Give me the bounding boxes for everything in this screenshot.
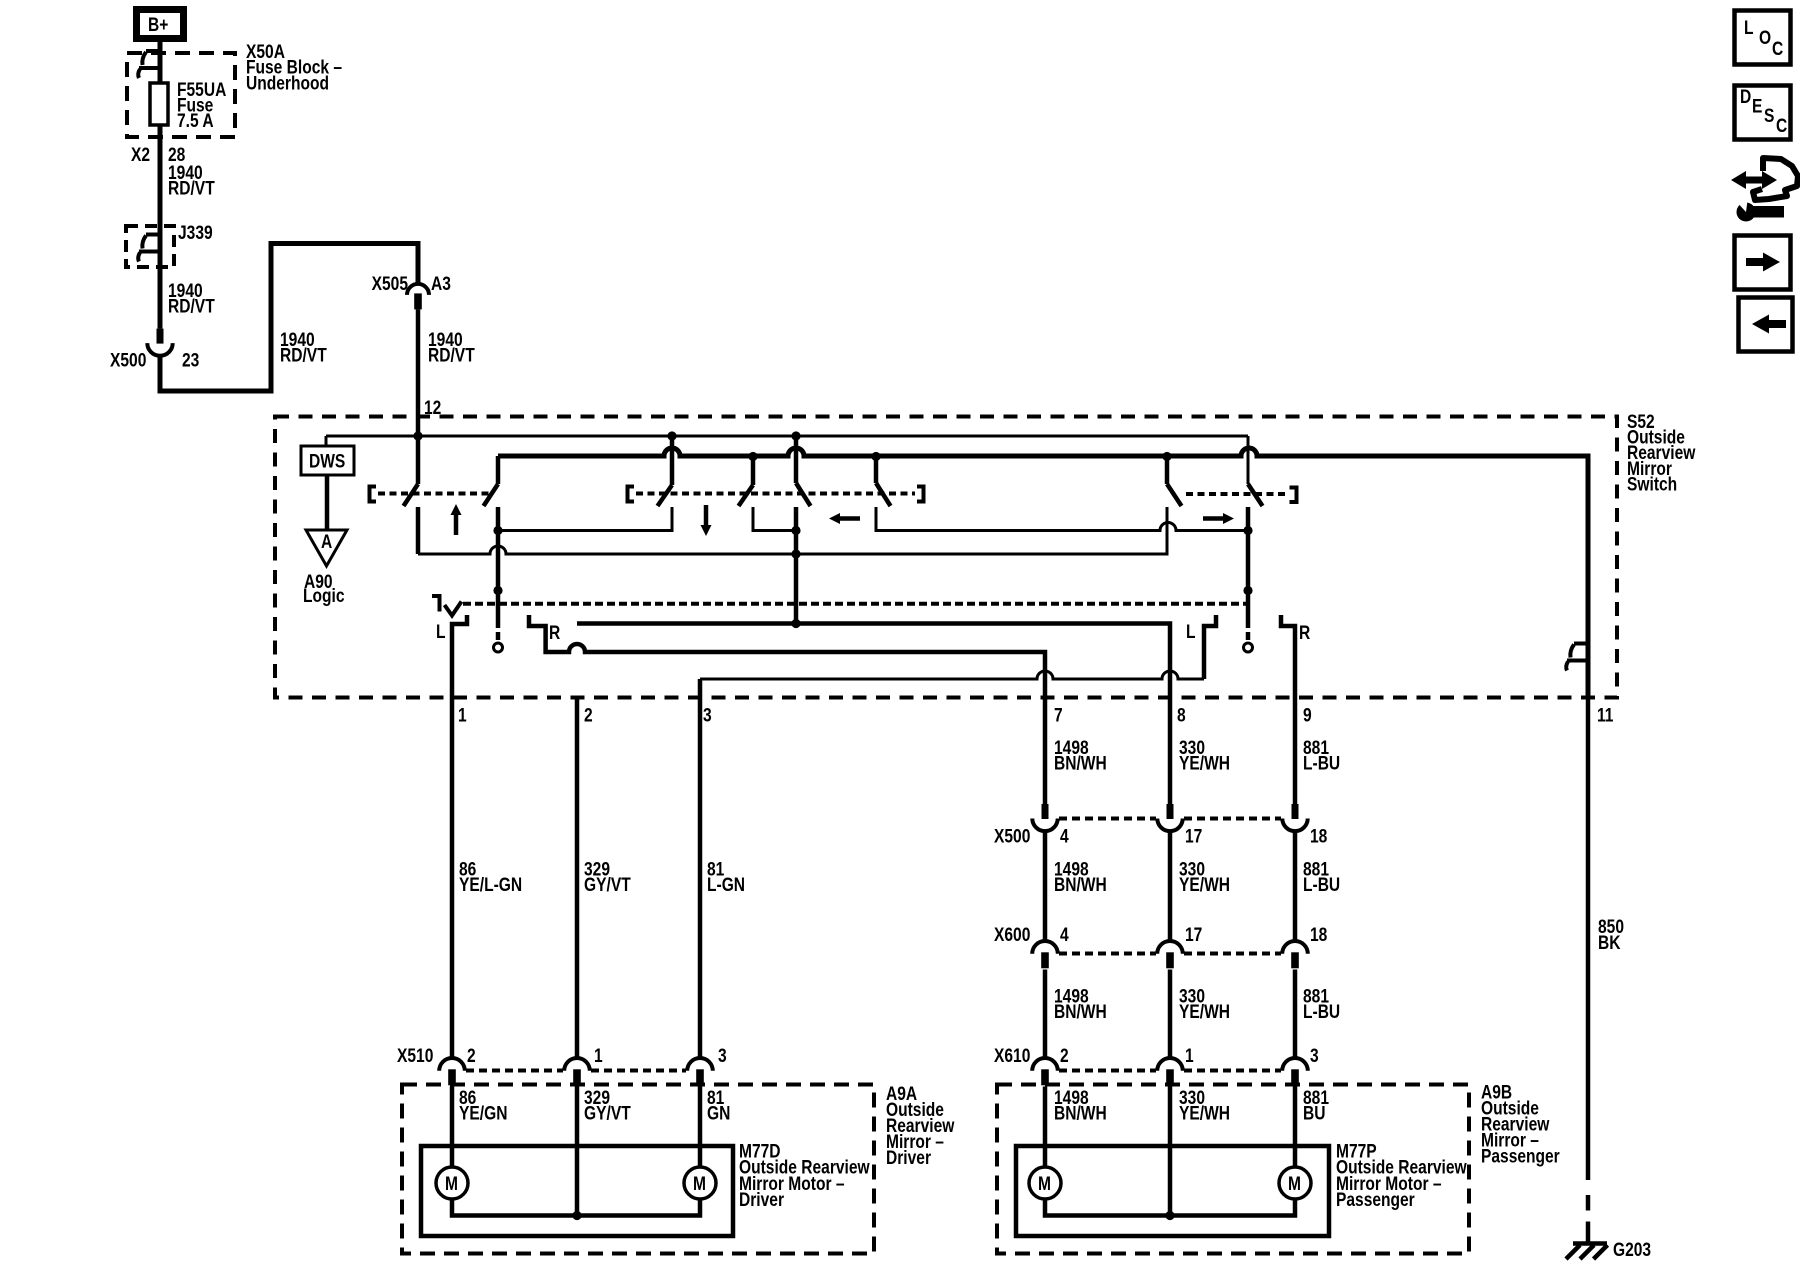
svg-text:GN: GN — [707, 1102, 730, 1124]
switch blade right-left — [1165, 456, 1170, 484]
contact up-right lower wire to o-contact — [496, 507, 501, 628]
symbol A90 logic triangle — [306, 530, 347, 566]
svg-text:RD/VT: RD/VT — [428, 344, 475, 366]
fuse block terminal hook — [146, 49, 160, 53]
wire X500 to X600 w8 — [1168, 832, 1173, 942]
arrow left — [838, 516, 860, 521]
svg-text:R: R — [549, 622, 561, 644]
fuse block X50A dashed box — [127, 53, 235, 137]
connector X600 dashed link — [1059, 952, 1156, 956]
svg-text:Passenger: Passenger — [1336, 1189, 1415, 1211]
wire X610-1 to motor common — [1168, 1087, 1173, 1216]
contact left-right lower — [876, 507, 1248, 531]
terminal R driver wire to pin7 — [529, 615, 1045, 698]
o contact right — [1244, 643, 1253, 652]
svg-text:M: M — [693, 1173, 706, 1195]
junction left-left at line-a — [791, 526, 800, 535]
wire 850 BK dashed tail — [1586, 1195, 1591, 1211]
connector X500 dashed link — [1059, 817, 1156, 821]
ground G203 symbol — [1573, 1241, 1607, 1246]
wire pin 9 to X500 — [1293, 698, 1298, 804]
o contact left — [494, 643, 503, 652]
connector X500-18 — [1292, 804, 1299, 819]
junction down-left on bus A — [667, 431, 676, 440]
motor box M77D — [421, 1146, 733, 1236]
junction o-feed left upper — [493, 526, 502, 535]
svg-text:1: 1 — [1185, 1045, 1194, 1067]
junction left-left on bus A — [791, 431, 800, 440]
motor box M77P — [1016, 1146, 1329, 1236]
svg-text:Driver: Driver — [886, 1147, 931, 1169]
svg-text:2: 2 — [584, 704, 593, 726]
connector X610 dashed link — [1059, 1069, 1156, 1073]
bracket left-group right — [917, 487, 924, 502]
svg-text:7: 7 — [1054, 704, 1063, 726]
linkage dashed up-group — [378, 492, 492, 496]
terminal R passenger wire to pin9 — [1281, 615, 1295, 698]
svg-text:Underhood: Underhood — [246, 72, 329, 94]
contact left-left lower wire — [794, 507, 799, 624]
svg-text:M: M — [1038, 1173, 1051, 1195]
svg-text:L-BU: L-BU — [1303, 752, 1340, 774]
svg-text:1: 1 — [458, 704, 467, 726]
svg-text:X600: X600 — [994, 924, 1030, 946]
wire from X500 to X505 — [160, 244, 418, 392]
terminal L driver — [452, 615, 467, 698]
splice J339 terminal hook — [146, 233, 160, 237]
svg-text:7.5 A: 7.5 A — [177, 110, 214, 132]
bracket down-group left — [628, 487, 635, 502]
svg-text:17: 17 — [1185, 924, 1202, 946]
svg-text:BN/WH: BN/WH — [1054, 874, 1107, 896]
svg-text:YE/WH: YE/WH — [1179, 752, 1230, 774]
svg-text:X2: X2 — [131, 144, 150, 166]
logic box DWS — [301, 446, 354, 475]
wire pin 7 to X500 — [1043, 698, 1048, 804]
connector X510-2 — [439, 1058, 465, 1071]
bus B line to pin 11 — [498, 448, 1588, 698]
svg-text:L-BU: L-BU — [1303, 874, 1340, 896]
connector X610-1 — [1157, 1058, 1183, 1071]
svg-text:A: A — [321, 531, 333, 553]
svg-text:X505: X505 — [372, 273, 409, 295]
splice J339 dashed box — [126, 226, 174, 267]
svg-text:L: L — [1744, 17, 1754, 39]
svg-text:DWS: DWS — [309, 450, 345, 472]
bracket up-group left — [370, 487, 377, 502]
wire B+ to fuse block — [158, 42, 163, 329]
connector X505 pin A3 — [407, 284, 429, 295]
svg-text:GY/VT: GY/VT — [584, 1102, 631, 1124]
contact up-left lower — [416, 507, 421, 554]
connector X510 dashed link — [466, 1069, 563, 1073]
svg-text:X510: X510 — [397, 1045, 433, 1067]
svg-text:C: C — [1776, 115, 1788, 137]
switch blade down-left — [670, 436, 675, 485]
connector X510-3 — [687, 1058, 713, 1071]
junction o-feed left lower — [493, 586, 502, 595]
wire 850 BK — [1586, 698, 1591, 1180]
arrow down — [704, 505, 709, 528]
svg-text:2: 2 — [467, 1045, 476, 1067]
icon LOC box — [1735, 11, 1791, 65]
icon next-page box — [1735, 236, 1791, 290]
wire X510-3 to motor — [698, 1087, 703, 1168]
svg-text:3: 3 — [718, 1045, 727, 1067]
wire X610-3 to motor — [1293, 1087, 1298, 1168]
motor M passenger vertical — [1029, 1167, 1061, 1199]
mirror A9B dashed box — [997, 1085, 1469, 1254]
motor M passenger horizontal — [1279, 1167, 1311, 1199]
svg-text:B+: B+ — [148, 14, 168, 36]
wire pin 8 to X500 — [1168, 698, 1173, 804]
svg-text:A3: A3 — [431, 273, 451, 295]
junction o-feed right lower — [1243, 586, 1252, 595]
junction pin12 on bus A — [413, 431, 422, 440]
connector X510-1 — [564, 1058, 590, 1071]
svg-text:X610: X610 — [994, 1045, 1030, 1067]
switch blade down-right — [751, 456, 756, 485]
svg-text:YE/WH: YE/WH — [1179, 1102, 1230, 1124]
icon prev-page box — [1739, 298, 1793, 352]
connector X600-4 — [1032, 941, 1058, 954]
svg-text:BN/WH: BN/WH — [1054, 1102, 1107, 1124]
svg-text:L-BU: L-BU — [1303, 1001, 1340, 1023]
svg-text:3: 3 — [1310, 1045, 1319, 1067]
connector X500-17 — [1167, 804, 1174, 819]
bracket right-group right — [1290, 488, 1297, 503]
connector X500-4 — [1042, 804, 1049, 819]
junction left-left at line-c — [791, 619, 800, 628]
svg-text:Switch: Switch — [1627, 473, 1677, 495]
svg-text:1: 1 — [594, 1045, 603, 1067]
switch blade left-left — [794, 436, 799, 483]
svg-text:RD/VT: RD/VT — [168, 295, 215, 317]
svg-text:E: E — [1752, 95, 1762, 117]
wire X500 to X600 w9 — [1293, 832, 1298, 942]
wiper symbol — [432, 596, 440, 612]
contact right-left lower — [418, 507, 1167, 554]
junction right-left on bus B — [1162, 452, 1171, 461]
arrow up — [454, 512, 459, 535]
svg-text:3: 3 — [703, 704, 712, 726]
contact down-left lower — [498, 507, 672, 531]
junction down-right on bus B — [748, 452, 757, 461]
svg-text:11: 11 — [1597, 704, 1614, 726]
svg-text:4: 4 — [1060, 924, 1069, 946]
junction left-left at line-b — [791, 549, 800, 558]
motor M driver horizontal — [684, 1167, 716, 1199]
svg-text:GY/VT: GY/VT — [584, 874, 631, 896]
wire X600 to X610 w7 — [1043, 970, 1048, 1059]
svg-text:Passenger: Passenger — [1481, 1145, 1560, 1167]
svg-text:YE/WH: YE/WH — [1179, 874, 1230, 896]
svg-text:18: 18 — [1310, 825, 1328, 847]
wire X510-2 to motor — [450, 1087, 455, 1168]
svg-text:Driver: Driver — [739, 1189, 784, 1211]
wire X500 to X600 w7 — [1043, 832, 1048, 942]
svg-text:L: L — [436, 621, 446, 643]
connector X610-2 — [1032, 1058, 1058, 1071]
svg-text:M: M — [1288, 1173, 1301, 1195]
svg-text:O: O — [1759, 27, 1771, 49]
svg-text:RD/VT: RD/VT — [280, 344, 327, 366]
svg-text:R: R — [1299, 622, 1311, 644]
connector X500 pin 23 — [157, 329, 164, 344]
linkage dotted common — [463, 602, 1247, 606]
wire X600 to X610 w8 — [1168, 970, 1173, 1059]
icon swap arrows — [1744, 177, 1764, 184]
line pin3 to passenger-L — [700, 671, 1204, 679]
svg-text:2: 2 — [1060, 1045, 1069, 1067]
svg-text:18: 18 — [1310, 924, 1328, 946]
svg-text:YE/L-GN: YE/L-GN — [459, 874, 522, 896]
connector X610-3 — [1282, 1058, 1308, 1071]
svg-text:G203: G203 — [1613, 1239, 1651, 1261]
svg-text:C: C — [1772, 38, 1784, 60]
contact down-right lower — [753, 507, 796, 531]
wire X610-2 to motor — [1043, 1087, 1048, 1168]
svg-text:L: L — [1186, 621, 1196, 643]
contact right-right lower wire to o-contact — [1246, 507, 1251, 628]
wire pin 3 to X510 — [698, 679, 703, 1058]
wire DWS to A90 triangle — [325, 475, 330, 530]
svg-text:RD/VT: RD/VT — [168, 177, 215, 199]
fuse F55UA — [150, 83, 168, 125]
switch blade left-right — [874, 456, 879, 483]
svg-text:YE/WH: YE/WH — [1179, 1001, 1230, 1023]
bus A feed line — [326, 435, 1248, 438]
svg-text:YE/GN: YE/GN — [459, 1102, 507, 1124]
terminal L passenger — [1204, 615, 1216, 679]
svg-text:4: 4 — [1060, 825, 1069, 847]
switch S52 dashed box — [275, 417, 1617, 698]
junction motor common passenger — [1165, 1211, 1174, 1220]
wire bus A corner to right-right blade — [1247, 436, 1250, 484]
motor common wire passenger — [1045, 1199, 1295, 1216]
linkage dashed right-group — [1186, 492, 1288, 496]
junction left-right on bus B — [871, 452, 880, 461]
svg-text:M: M — [445, 1173, 458, 1195]
switch blade right-right — [1248, 484, 1263, 506]
motor common wire driver — [452, 1199, 700, 1216]
icon DESC box — [1735, 86, 1791, 140]
svg-text:L-GN: L-GN — [707, 874, 745, 896]
svg-text:BN/WH: BN/WH — [1054, 752, 1107, 774]
switch blade up-left — [416, 436, 421, 484]
svg-text:BU: BU — [1303, 1102, 1325, 1124]
svg-text:J339: J339 — [178, 222, 213, 244]
ground terminal hook in S52 — [1574, 642, 1588, 646]
line-c to pin 8 — [577, 624, 1170, 699]
mirror A9A dashed box — [402, 1085, 874, 1254]
motor M driver vertical — [436, 1167, 468, 1199]
power symbol B+ — [137, 10, 184, 39]
svg-text:X500: X500 — [994, 825, 1030, 847]
svg-text:BN/WH: BN/WH — [1054, 1001, 1107, 1023]
svg-text:D: D — [1740, 86, 1751, 108]
junction motor common driver — [572, 1211, 581, 1220]
connector X600-18 — [1282, 941, 1308, 954]
svg-text:8: 8 — [1177, 704, 1186, 726]
arrow right — [1203, 516, 1225, 521]
wire X505 to switch pin 12 — [416, 309, 421, 436]
icon wrench — [1737, 203, 1756, 222]
linkage dashed down-left-group — [636, 492, 915, 496]
junction o-feed right upper — [1243, 526, 1252, 535]
svg-text:X500: X500 — [110, 349, 146, 371]
wire pin 2 to X510 — [575, 698, 580, 1058]
switch blade up-right — [496, 456, 501, 484]
svg-text:BK: BK — [1598, 932, 1621, 954]
connector X600-17 — [1157, 941, 1183, 954]
svg-text:S: S — [1764, 105, 1774, 127]
wire X600 to X610 w9 — [1293, 970, 1298, 1059]
svg-text:Logic: Logic — [303, 585, 345, 607]
wire bus A to DWS — [325, 436, 328, 446]
svg-text:9: 9 — [1303, 704, 1312, 726]
wire X510-1 to motor common — [575, 1087, 580, 1216]
svg-text:17: 17 — [1185, 825, 1202, 847]
wire pin 1 to X510 — [450, 698, 455, 1058]
svg-text:23: 23 — [182, 349, 200, 371]
